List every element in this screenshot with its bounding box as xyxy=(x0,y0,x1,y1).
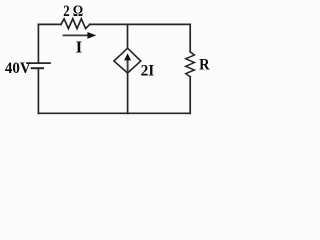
wire top-left segment xyxy=(38,23,61,25)
wire right upper segment xyxy=(189,24,191,52)
resistor 2-ohm zigzag (top) xyxy=(61,19,90,29)
wire right lower segment xyxy=(189,77,191,114)
wire left upper segment xyxy=(37,24,39,62)
svg-text:40V: 40V xyxy=(5,60,31,77)
svg-text:I: I xyxy=(76,38,83,57)
voltage source battery long plate (+) xyxy=(27,62,50,64)
voltage source battery short plate (-) xyxy=(32,67,43,69)
wire top-middle segment xyxy=(90,23,128,25)
wire left lower segment xyxy=(37,69,39,113)
wire middle branch upper xyxy=(127,24,129,48)
wire bottom segment xyxy=(38,112,190,114)
svg-text:R: R xyxy=(199,57,210,74)
current arrow I xyxy=(64,32,97,39)
svg-text:2 Ω: 2 Ω xyxy=(63,3,83,20)
dependent source internal arrow xyxy=(124,53,131,71)
resistor R zigzag (right) xyxy=(186,52,195,77)
svg-text:2I: 2I xyxy=(141,63,155,80)
wire top-right segment xyxy=(128,23,191,25)
dependent current source diamond xyxy=(114,48,141,73)
wire middle branch lower xyxy=(127,73,129,113)
